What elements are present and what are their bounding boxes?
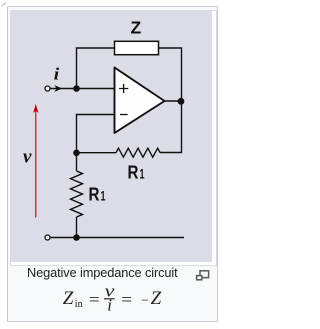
current arrow i — [54, 85, 62, 92]
schematic background — [11, 11, 212, 262]
svg-text:R: R — [127, 161, 138, 182]
terminal: input top — [45, 86, 50, 91]
wire: vertical resistor to bottom rail — [75, 217, 77, 238]
svg-text:1: 1 — [139, 166, 144, 181]
image box — [10, 10, 218, 267]
svg-text:−: − — [141, 292, 149, 307]
wire: op-amp output — [164, 100, 181, 102]
node: output junction — [177, 97, 184, 104]
wire: feedback node down to vertical resistor — [75, 152, 77, 170]
wire: top input from terminal to op-amp + input — [50, 87, 114, 89]
svg-text:=: = — [89, 290, 100, 309]
op-amp - pin mark — [120, 113, 128, 115]
svg-text:=: = — [121, 290, 132, 309]
resistor R1 vertical (grounding) — [70, 171, 82, 217]
node: feedback junction — [73, 149, 80, 156]
svg-text:R: R — [88, 183, 99, 204]
svg-text:Z: Z — [63, 288, 74, 309]
label R1 (horizontal resistor) — [127, 161, 144, 182]
svg-text:i: i — [107, 296, 112, 315]
stray glyph fragment top-left — [0, 0, 10, 10]
op-amp + pin mark — [119, 83, 128, 92]
svg-text:Z: Z — [151, 288, 162, 309]
svg-text:Z: Z — [130, 17, 141, 37]
wire: - input to left vertical, down to feedback node — [76, 114, 114, 152]
svg-text:v: v — [23, 146, 32, 167]
formula Zin = v/i = -Z — [55, 284, 170, 316]
label v — [23, 146, 32, 167]
voltage arrow v (red) — [33, 104, 38, 218]
wire: Z box right to output vertical, down to feedback level — [158, 48, 181, 153]
label Z — [130, 17, 141, 37]
label i — [53, 65, 58, 83]
wire: feedback node to horizontal resistor — [76, 151, 116, 153]
node: + input junction — [73, 85, 80, 92]
wire: bottom rail — [50, 236, 184, 238]
thumbnail frame — [7, 6, 219, 322]
label R1 (vertical resistor) — [88, 183, 105, 204]
node: bottom junction — [73, 234, 80, 241]
op-amp U1 — [114, 67, 164, 133]
svg-text:1: 1 — [100, 188, 105, 203]
resistor R1 horizontal (feedback) — [116, 148, 160, 157]
svg-text:i: i — [53, 65, 58, 83]
svg-text:in: in — [75, 299, 83, 310]
caption text — [27, 267, 178, 280]
impedance Z box — [114, 41, 158, 54]
wire: junction up and right to Z box — [76, 48, 114, 89]
terminal: input bottom — [45, 235, 50, 240]
magnify icon — [195, 269, 210, 281]
